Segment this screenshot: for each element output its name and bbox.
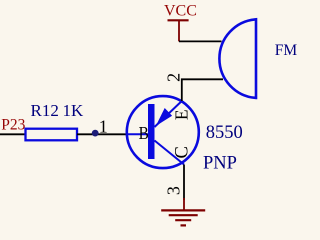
ground bar 3 <box>175 219 191 221</box>
collector pin wire down <box>183 165 185 201</box>
ground bar 2 <box>169 214 198 216</box>
transistor Q1 circle <box>127 96 199 168</box>
wire VCC to speaker <box>179 40 222 42</box>
svg-text:2: 2 <box>164 73 184 82</box>
ground bar 4 <box>181 224 187 226</box>
svg-text:B: B <box>139 123 149 143</box>
svg-text:1K: 1K <box>63 101 85 120</box>
svg-text:3: 3 <box>164 186 184 195</box>
junction dot <box>92 130 99 137</box>
transistor base bar <box>148 104 155 159</box>
wire from P23 to resistor R12 <box>0 133 26 135</box>
speaker FM body <box>219 19 256 98</box>
emitter pin wire up <box>182 79 223 101</box>
svg-text:P23: P23 <box>1 117 25 134</box>
svg-text:R12: R12 <box>31 101 59 120</box>
svg-text:VCC: VCC <box>164 2 197 19</box>
resistor R12 body <box>26 129 78 141</box>
ground stem <box>183 198 185 210</box>
ground bar 1 <box>161 209 205 211</box>
VCC power stem <box>178 21 180 42</box>
PNP emitter arrow <box>156 108 172 126</box>
svg-text:1: 1 <box>99 117 108 137</box>
wire from resistor to transistor base <box>77 133 127 135</box>
svg-text:FM: FM <box>275 42 298 59</box>
transistor base line inside circle <box>126 133 149 135</box>
emitter line <box>155 101 182 127</box>
svg-text:8550: 8550 <box>206 123 243 143</box>
svg-text:PNP: PNP <box>203 153 237 173</box>
VCC power bar <box>168 19 189 21</box>
collector line <box>155 141 185 165</box>
svg-text:E: E <box>171 109 191 120</box>
svg-text:C: C <box>173 146 193 158</box>
